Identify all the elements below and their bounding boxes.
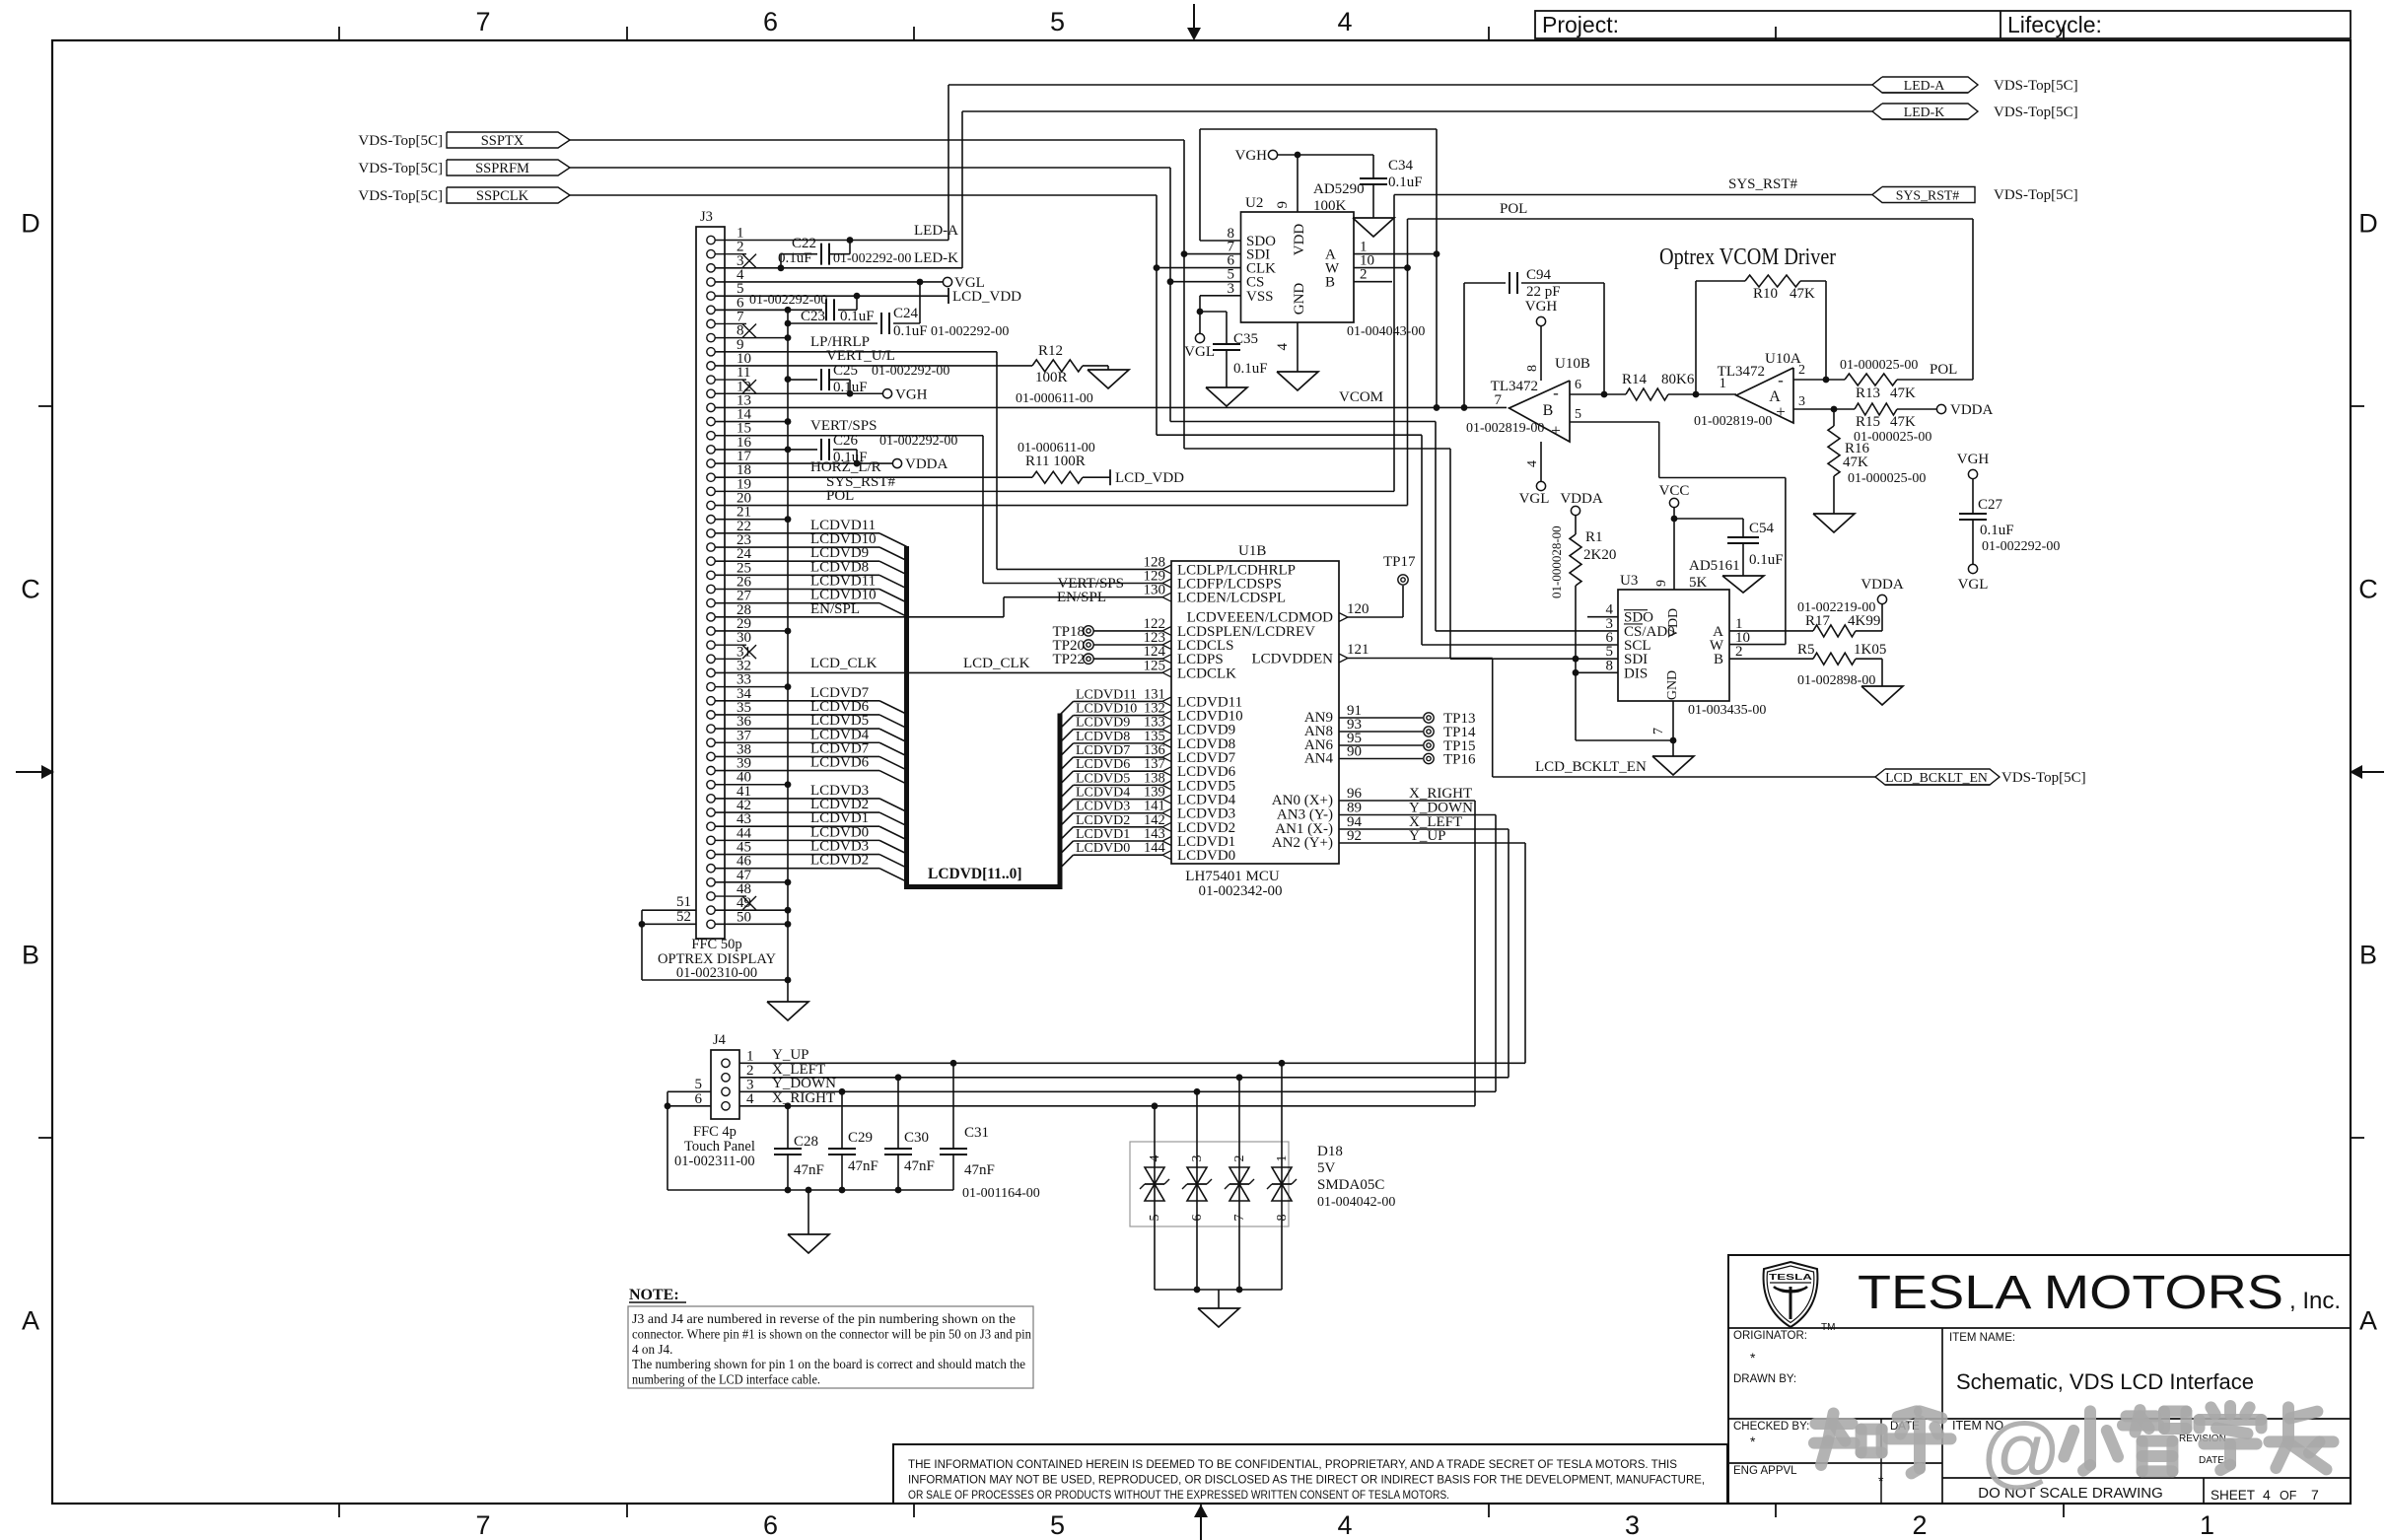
- svg-text:LCDVD4: LCDVD4: [1076, 786, 1130, 801]
- svg-text:NOTE:: NOTE:: [629, 1287, 679, 1303]
- svg-text:C23: C23: [801, 309, 825, 324]
- svg-text:0.1uF: 0.1uF: [1388, 175, 1423, 190]
- svg-text:7: 7: [2311, 1487, 2319, 1503]
- svg-text:VCC: VCC: [1659, 483, 1690, 499]
- svg-text:01-004043-00: 01-004043-00: [1347, 324, 1425, 339]
- svg-text:LCD_VDD: LCD_VDD: [1115, 470, 1184, 486]
- svg-text:01-003435-00: 01-003435-00: [1688, 703, 1766, 718]
- svg-text:01-002819-00: 01-002819-00: [1466, 421, 1544, 436]
- svg-text:FFC 50p: FFC 50p: [691, 937, 741, 952]
- svg-text:TP16: TP16: [1443, 752, 1476, 768]
- svg-text:U3: U3: [1620, 573, 1638, 589]
- svg-text:AD5161: AD5161: [1689, 558, 1740, 574]
- svg-text:C35: C35: [1233, 331, 1258, 347]
- svg-text:01-004042-00: 01-004042-00: [1317, 1195, 1395, 1210]
- svg-text:LCD_CLK: LCD_CLK: [810, 656, 878, 671]
- svg-text:5V: 5V: [1317, 1160, 1336, 1176]
- svg-text:01-001164-00: 01-001164-00: [962, 1186, 1040, 1201]
- svg-text:TESLA MOTORS: TESLA MOTORS: [1858, 1267, 2283, 1319]
- svg-text:01-002819-00: 01-002819-00: [1694, 414, 1772, 429]
- svg-text:4: 4: [1275, 343, 1291, 351]
- svg-text:R13: R13: [1856, 385, 1880, 401]
- svg-text:U10A: U10A: [1765, 351, 1801, 367]
- svg-text:8: 8: [1525, 365, 1540, 372]
- svg-text:51: 51: [676, 894, 691, 910]
- svg-text:INFORMATION MAY NOT BE USED, R: INFORMATION MAY NOT BE USED, REPRODUCED,…: [908, 1473, 1705, 1487]
- svg-text:D: D: [21, 209, 40, 239]
- svg-text:VGH: VGH: [895, 386, 928, 402]
- svg-text:52: 52: [676, 909, 691, 925]
- svg-text:4: 4: [1148, 1155, 1162, 1162]
- svg-text:47nF: 47nF: [904, 1158, 935, 1174]
- svg-text:SYS_RST#: SYS_RST#: [1728, 176, 1798, 192]
- svg-text:47K: 47K: [1890, 385, 1916, 401]
- svg-text:LCD_BCKLT_EN: LCD_BCKLT_EN: [1535, 759, 1647, 775]
- svg-text:5: 5: [1148, 1215, 1162, 1222]
- svg-text:01-002898-00: 01-002898-00: [1797, 673, 1875, 688]
- svg-text:C28: C28: [794, 1134, 818, 1150]
- svg-text:POL: POL: [1930, 362, 1957, 378]
- svg-text:C31: C31: [964, 1125, 989, 1141]
- svg-text:01-002311-00: 01-002311-00: [674, 1154, 755, 1169]
- svg-text:DRAWN BY:: DRAWN BY:: [1733, 1373, 1796, 1385]
- svg-text:8: 8: [1275, 1215, 1290, 1222]
- svg-text:01-002292-00: 01-002292-00: [931, 324, 1009, 339]
- svg-text:AN2 (Y+): AN2 (Y+): [1272, 835, 1333, 851]
- svg-text:01-002292-00: 01-002292-00: [749, 293, 827, 308]
- svg-text:LED-A: LED-A: [914, 223, 958, 239]
- svg-text:LCDVDDEN: LCDVDDEN: [1252, 652, 1334, 667]
- svg-text:VGL: VGL: [1184, 344, 1215, 360]
- svg-text:Touch Panel: Touch Panel: [684, 1139, 755, 1155]
- svg-text:B: B: [2359, 941, 2377, 970]
- svg-text:VDS-Top[5C]: VDS-Top[5C]: [358, 133, 443, 149]
- svg-text:2K20: 2K20: [1583, 547, 1616, 563]
- svg-text:, Inc.: , Inc.: [2289, 1288, 2341, 1314]
- svg-text:-: -: [1778, 371, 1784, 389]
- svg-text:6: 6: [1190, 1215, 1205, 1222]
- svg-text:3: 3: [1798, 394, 1805, 409]
- svg-text:AN4: AN4: [1304, 751, 1334, 767]
- svg-text:01-000611-00: 01-000611-00: [1016, 391, 1093, 406]
- svg-text:LCD_CLK: LCD_CLK: [963, 656, 1030, 671]
- svg-text:Optrex VCOM Driver: Optrex VCOM Driver: [1659, 245, 1836, 270]
- svg-text:VDS-Top[5C]: VDS-Top[5C]: [358, 161, 443, 176]
- svg-text:R11 100R: R11 100R: [1025, 454, 1086, 469]
- svg-text:01-002342-00: 01-002342-00: [1199, 883, 1283, 899]
- svg-text:POL: POL: [826, 488, 854, 504]
- svg-text:22 pF: 22 pF: [1526, 284, 1561, 300]
- svg-text:LED-A: LED-A: [1904, 78, 1944, 93]
- svg-text:SSPTX: SSPTX: [481, 133, 525, 149]
- svg-text:LCDCLK: LCDCLK: [1177, 665, 1236, 681]
- svg-text:@: @: [1980, 1407, 2062, 1497]
- svg-text:AD5290: AD5290: [1313, 181, 1365, 197]
- svg-text:6: 6: [763, 7, 778, 36]
- svg-text:5: 5: [1050, 1510, 1065, 1540]
- svg-text:80K6: 80K6: [1661, 372, 1695, 387]
- svg-text:0.1uF: 0.1uF: [893, 323, 928, 339]
- svg-text:LCDVD2: LCDVD2: [810, 853, 869, 869]
- svg-text:1: 1: [2200, 1510, 2214, 1540]
- svg-text:A: A: [1769, 388, 1781, 405]
- svg-text:LCDVD10: LCDVD10: [1076, 702, 1137, 717]
- svg-text:LCDVD0: LCDVD0: [1177, 848, 1235, 864]
- svg-text:HORZ_L/R: HORZ_L/R: [810, 459, 881, 475]
- svg-text:ENG APPVL: ENG APPVL: [1733, 1465, 1797, 1477]
- svg-text:J3 and J4 are numbered in reve: J3 and J4 are numbered in reverse of the…: [632, 1311, 1016, 1326]
- svg-text:TP17: TP17: [1383, 554, 1416, 570]
- svg-text:numbering of the LCD interface: numbering of the LCD interface cable.: [632, 1372, 820, 1387]
- svg-text:VDDA: VDDA: [1860, 577, 1903, 593]
- svg-text:90: 90: [1347, 744, 1362, 760]
- svg-text:Y_DOWN: Y_DOWN: [772, 1076, 836, 1091]
- svg-text:7: 7: [475, 1510, 490, 1540]
- svg-text:Project:: Project:: [1542, 12, 1619, 37]
- svg-text:FFC 4p: FFC 4p: [693, 1124, 737, 1140]
- svg-text:01-002292-00: 01-002292-00: [872, 364, 949, 379]
- svg-text:VDS-Top[5C]: VDS-Top[5C]: [2001, 770, 2086, 786]
- svg-text:SYS_RST#: SYS_RST#: [1896, 188, 1960, 203]
- svg-text:LCDVD1: LCDVD1: [1076, 827, 1130, 842]
- svg-text:LCDVD5: LCDVD5: [1076, 771, 1130, 786]
- svg-text:7: 7: [1232, 1215, 1247, 1222]
- svg-text:VDS-Top[5C]: VDS-Top[5C]: [1994, 105, 2078, 120]
- svg-text:connector. Where pin #1 is sh: connector. Where pin #1 is shown on the …: [632, 1326, 1031, 1341]
- svg-text:2: 2: [1798, 363, 1805, 378]
- svg-text:92: 92: [1347, 828, 1362, 844]
- svg-text:121: 121: [1347, 642, 1369, 658]
- svg-text:A: A: [2359, 1306, 2377, 1336]
- svg-text:Y_UP: Y_UP: [772, 1047, 809, 1063]
- svg-text:125: 125: [1144, 658, 1166, 673]
- svg-text:VERT_U/L: VERT_U/L: [826, 348, 895, 364]
- svg-text:01-000028-00: 01-000028-00: [1549, 525, 1564, 598]
- svg-text:01-000025-00: 01-000025-00: [1848, 471, 1926, 486]
- svg-text:2: 2: [1912, 1510, 1927, 1540]
- svg-text:C27: C27: [1978, 497, 2003, 513]
- svg-text:9: 9: [1654, 580, 1669, 587]
- svg-text:6: 6: [763, 1510, 778, 1540]
- svg-text:LCDVEEEN/LCDMOD: LCDVEEEN/LCDMOD: [1187, 610, 1333, 626]
- svg-text:01-000025-00: 01-000025-00: [1840, 358, 1918, 373]
- svg-text:LCDEN/LCDSPL: LCDEN/LCDSPL: [1177, 591, 1286, 606]
- svg-text:C30: C30: [904, 1130, 929, 1146]
- svg-text:VGH: VGH: [1525, 299, 1558, 315]
- svg-text:GND: GND: [1665, 670, 1680, 700]
- svg-text:4: 4: [1337, 7, 1352, 36]
- svg-text:5: 5: [1050, 7, 1065, 36]
- svg-text:47nF: 47nF: [794, 1162, 824, 1178]
- svg-text:OF: OF: [2280, 1489, 2297, 1503]
- svg-text:U10B: U10B: [1555, 356, 1590, 372]
- svg-text:47K: 47K: [1790, 286, 1815, 302]
- svg-text:6: 6: [1575, 378, 1581, 392]
- svg-text:47K: 47K: [1843, 455, 1868, 470]
- svg-text:1: 1: [1275, 1155, 1290, 1162]
- svg-text:B: B: [22, 941, 39, 970]
- svg-text:LCDVD7: LCDVD7: [1076, 743, 1130, 758]
- svg-text:VERT/SPS: VERT/SPS: [810, 418, 877, 434]
- svg-text:2: 2: [1232, 1155, 1247, 1162]
- svg-text:R10: R10: [1753, 286, 1778, 302]
- svg-text:LCDVD[11..0]: LCDVD[11..0]: [928, 866, 1022, 882]
- svg-text:0.1uF: 0.1uF: [778, 250, 812, 266]
- svg-text:DIS: DIS: [1624, 665, 1648, 681]
- svg-text:U2: U2: [1245, 195, 1263, 211]
- svg-text:4: 4: [2263, 1487, 2271, 1503]
- svg-text:0.1uF: 0.1uF: [1233, 361, 1268, 377]
- svg-text:-: -: [1553, 384, 1559, 402]
- svg-text:VDD: VDD: [1292, 224, 1307, 256]
- svg-text:4 on J4.: 4 on J4.: [632, 1342, 672, 1357]
- svg-text:C54: C54: [1749, 521, 1775, 536]
- svg-text:R5: R5: [1797, 642, 1815, 658]
- svg-text:C94: C94: [1526, 267, 1552, 283]
- svg-text:CHECKED BY:: CHECKED BY:: [1733, 1421, 1809, 1433]
- svg-text:LED-K: LED-K: [1904, 105, 1944, 119]
- svg-text:J3: J3: [700, 209, 713, 225]
- svg-text:47nF: 47nF: [848, 1158, 878, 1174]
- svg-text:Y_UP: Y_UP: [1409, 828, 1446, 844]
- svg-text:Schematic, VDS LCD Interface: Schematic, VDS LCD Interface: [1956, 1369, 2254, 1394]
- svg-text:LH75401 MCU: LH75401 MCU: [1185, 869, 1280, 884]
- svg-text:GND: GND: [1292, 283, 1307, 315]
- svg-text:LCDVD3: LCDVD3: [1076, 800, 1130, 814]
- svg-text:VSS: VSS: [1246, 289, 1274, 305]
- svg-text:VGH: VGH: [1235, 148, 1268, 164]
- svg-text:VDS-Top[5C]: VDS-Top[5C]: [358, 188, 443, 204]
- svg-text:VCOM: VCOM: [1339, 389, 1383, 405]
- svg-text:LCDVD6: LCDVD6: [1076, 757, 1130, 772]
- svg-text:*: *: [1750, 1350, 1756, 1365]
- svg-text:47nF: 47nF: [964, 1162, 995, 1178]
- svg-text:130: 130: [1144, 583, 1166, 598]
- svg-text:3: 3: [1190, 1155, 1205, 1162]
- svg-text:LCDVD9: LCDVD9: [1076, 716, 1130, 731]
- svg-text:5: 5: [1575, 407, 1581, 422]
- svg-text:The numbering shown for pin 1: The numbering shown for pin 1 on the boa…: [632, 1357, 1025, 1371]
- svg-text:C34: C34: [1388, 158, 1414, 174]
- svg-text:LCD_VDD: LCD_VDD: [952, 289, 1021, 305]
- svg-text:0.1uF: 0.1uF: [1980, 523, 2014, 538]
- svg-text:2: 2: [1735, 644, 1743, 660]
- svg-text:144: 144: [1144, 840, 1166, 856]
- svg-text:TM: TM: [1821, 1322, 1835, 1333]
- svg-text:*: *: [1750, 1434, 1756, 1449]
- svg-text:3: 3: [1625, 1510, 1640, 1540]
- svg-text:C24: C24: [893, 306, 919, 321]
- svg-text:4: 4: [1337, 1510, 1352, 1540]
- svg-text:100K: 100K: [1313, 198, 1347, 214]
- svg-text:LCDVD11: LCDVD11: [1076, 687, 1137, 702]
- svg-text:3: 3: [1228, 281, 1235, 297]
- svg-text:50: 50: [737, 909, 751, 925]
- svg-text:J4: J4: [713, 1032, 727, 1048]
- svg-text:0.1uF: 0.1uF: [1749, 552, 1784, 568]
- svg-text:VDDA: VDDA: [905, 456, 948, 472]
- svg-text:01-002310-00: 01-002310-00: [676, 965, 757, 981]
- svg-text:5: 5: [695, 1077, 703, 1092]
- svg-text:Lifecycle:: Lifecycle:: [2007, 12, 2102, 37]
- svg-text:LCDVD8: LCDVD8: [1076, 730, 1130, 744]
- svg-text:01-002292-00: 01-002292-00: [833, 251, 911, 266]
- svg-text:VDS-Top[5C]: VDS-Top[5C]: [1994, 78, 2078, 94]
- svg-text:4K99: 4K99: [1848, 613, 1880, 629]
- svg-text:B: B: [1325, 275, 1335, 291]
- svg-text:LCD_BCKLT_EN: LCD_BCKLT_EN: [1885, 770, 1988, 785]
- svg-text:01-002292-00: 01-002292-00: [879, 434, 957, 449]
- svg-text:100R: 100R: [1035, 370, 1068, 385]
- svg-text:7: 7: [475, 7, 490, 36]
- svg-text:0.1uF: 0.1uF: [833, 380, 868, 395]
- svg-text:SSPCLK: SSPCLK: [476, 188, 529, 204]
- svg-text:C29: C29: [848, 1130, 873, 1146]
- svg-text:LCDVD6: LCDVD6: [810, 755, 870, 771]
- svg-text:LCDVD2: LCDVD2: [1076, 813, 1130, 828]
- svg-text:X_RIGHT: X_RIGHT: [772, 1090, 835, 1106]
- svg-text:B: B: [1543, 402, 1554, 419]
- svg-text:R14: R14: [1622, 372, 1648, 387]
- svg-text:9: 9: [1275, 201, 1291, 209]
- svg-text:7: 7: [1495, 392, 1503, 408]
- svg-text:A: A: [22, 1306, 39, 1336]
- svg-text:ITEM NAME:: ITEM NAME:: [1949, 1332, 2015, 1344]
- svg-text:7: 7: [1651, 728, 1666, 735]
- svg-text:B: B: [1714, 652, 1723, 667]
- svg-text:TESLA: TESLA: [1769, 1272, 1812, 1282]
- svg-text:OR SALE OF PROCESSES OR PRODUC: OR SALE OF PROCESSES OR PRODUCTS WITHOUT…: [908, 1488, 1449, 1502]
- svg-text:SMDA05C: SMDA05C: [1317, 1177, 1384, 1193]
- svg-text:47K: 47K: [1890, 414, 1916, 430]
- svg-text:C26: C26: [833, 433, 859, 449]
- svg-text:C22: C22: [792, 236, 816, 251]
- svg-text:R15: R15: [1856, 414, 1880, 430]
- svg-text:ORIGINATOR:: ORIGINATOR:: [1733, 1330, 1807, 1342]
- svg-text:VDS-Top[5C]: VDS-Top[5C]: [1994, 187, 2078, 203]
- svg-text:01-002292-00: 01-002292-00: [1982, 539, 2060, 554]
- svg-text:C: C: [21, 575, 40, 604]
- svg-text:SHEET: SHEET: [2211, 1488, 2255, 1503]
- svg-text:+: +: [1551, 421, 1561, 440]
- svg-text:6: 6: [695, 1091, 703, 1107]
- svg-text:THE INFORMATION CONTAINED HERE: THE INFORMATION CONTAINED HEREIN IS DEEM…: [908, 1457, 1677, 1471]
- svg-text:POL: POL: [1500, 201, 1527, 217]
- svg-text:R1: R1: [1585, 529, 1603, 545]
- svg-text:4: 4: [746, 1091, 754, 1107]
- svg-text:EN/SPL: EN/SPL: [810, 601, 860, 617]
- svg-text:D18: D18: [1317, 1144, 1343, 1159]
- svg-text:1K05: 1K05: [1854, 642, 1886, 658]
- svg-text:SSPRFM: SSPRFM: [475, 161, 529, 176]
- svg-text:VDDA: VDDA: [1950, 402, 1993, 418]
- svg-text:120: 120: [1347, 601, 1369, 617]
- svg-text:LCDVD0: LCDVD0: [1076, 841, 1130, 856]
- svg-text:VDD: VDD: [1666, 608, 1681, 638]
- svg-text:VGL: VGL: [1519, 491, 1550, 507]
- svg-text:1: 1: [1720, 376, 1727, 391]
- svg-text:VGH: VGH: [1957, 452, 1990, 467]
- svg-text:R17: R17: [1805, 613, 1831, 629]
- svg-text:4: 4: [1525, 460, 1540, 467]
- svg-text:LED-K: LED-K: [914, 250, 958, 266]
- svg-text:VDDA: VDDA: [1560, 491, 1602, 507]
- svg-text:VGL: VGL: [1958, 577, 1989, 593]
- svg-text:R12: R12: [1038, 343, 1063, 359]
- svg-text:TP22: TP22: [1052, 652, 1085, 667]
- svg-text:EN/SPL: EN/SPL: [1057, 590, 1106, 605]
- svg-text:5K: 5K: [1689, 575, 1708, 591]
- svg-text:2: 2: [1360, 267, 1368, 283]
- svg-text:8: 8: [1606, 658, 1614, 673]
- svg-text:D: D: [2358, 209, 2378, 239]
- svg-text:C25: C25: [833, 363, 858, 379]
- svg-text:*: *: [1878, 1473, 1884, 1489]
- svg-text:C: C: [2358, 575, 2378, 604]
- svg-text:U1B: U1B: [1238, 543, 1266, 559]
- svg-text:0.1uF: 0.1uF: [840, 309, 875, 324]
